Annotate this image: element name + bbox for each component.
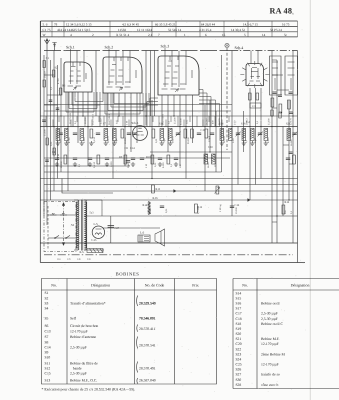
svg-text:Désignation: Désignation <box>91 284 110 288</box>
svg-text:Circuit de bouchon: Circuit de bouchon <box>70 324 98 328</box>
rail g2 line <box>44 110 231 112</box>
left table frame <box>42 279 217 385</box>
output transformer ticks <box>144 237 149 241</box>
svg-text:S11: S11 <box>45 361 51 365</box>
svg-text:Sch.4: Sch.4 <box>235 46 244 50</box>
scan speckle noise <box>42 17 306 391</box>
svg-text:C15: C15 <box>45 372 51 376</box>
svg-text:S15: S15 <box>236 296 242 300</box>
svg-text:25.000: 25.000 <box>44 129 47 136</box>
svg-text:C16: C16 <box>235 204 240 207</box>
mains dash vertical <box>47 206 49 250</box>
coil S14 winding <box>220 129 224 141</box>
svg-text:25pF: 25pF <box>254 137 257 143</box>
power transformer primary winding <box>77 200 79 250</box>
svg-text:C30: C30 <box>208 146 213 149</box>
schematic bottom border <box>40 262 305 264</box>
tube Sch.2 cathode arrow <box>119 87 123 90</box>
dial lamp cross <box>226 44 229 47</box>
trimmer C15 <box>176 133 180 135</box>
svg-text:56.561: 56.561 <box>290 139 293 146</box>
coil S2 winding <box>56 129 60 141</box>
svg-text:2,5-30 µµF: 2,5-30 µµF <box>70 345 87 349</box>
svg-text:C.25: C.25 <box>91 239 97 242</box>
right option box 1 marks <box>272 62 278 90</box>
resistor R8 <box>97 155 100 164</box>
svg-text:10.000: 10.000 <box>235 207 238 214</box>
resistor R11 <box>167 155 170 164</box>
left coupling box <box>53 70 55 77</box>
svg-text:S19: S19 <box>236 327 242 331</box>
svg-text:12 11 1634: 12 11 1634 <box>137 28 152 32</box>
magic eye coupling box C21 <box>250 103 261 108</box>
tube Sch.1 inner verticals <box>71 62 85 84</box>
svg-text:C20: C20 <box>236 342 242 346</box>
coupling loops under Sch.2 <box>105 93 149 114</box>
coil S16 winding <box>242 129 246 141</box>
svg-text:Bobine oscil: Bobine oscil <box>261 302 280 306</box>
left capacitor C3 <box>42 120 46 122</box>
svg-text:Sch.1: Sch.1 <box>66 45 75 49</box>
svg-text:25.000: 25.000 <box>174 117 177 124</box>
left tie 2 <box>47 94 61 96</box>
svg-text:1 M log: 1 M log <box>219 204 222 212</box>
svg-text:52 545 14: 52 545 14 <box>168 28 182 32</box>
svg-text:C17: C17 <box>236 312 242 316</box>
svg-text:S20: S20 <box>236 332 242 336</box>
transformer bottom leads <box>74 249 103 251</box>
rail HT line <box>40 199 297 201</box>
svg-text:66 35 5,8 45 21: 66 35 5,8 45 21 <box>155 22 176 26</box>
svg-text:10.000: 10.000 <box>60 161 63 168</box>
resistor R16 <box>271 98 274 107</box>
svg-text:125pF: 125pF <box>208 135 211 142</box>
svg-text:1.200: 1.200 <box>83 137 86 143</box>
svg-text:64 26,8 44: 64 26,8 44 <box>201 22 215 26</box>
left resistor Rb <box>53 148 55 155</box>
capacitor C25b <box>289 92 293 94</box>
svg-text:12-170 µµF: 12-170 µµF <box>261 363 279 367</box>
IF coupling loops left of Sch.3 <box>144 98 158 127</box>
capacitor C24 <box>278 95 282 97</box>
svg-text:cône avec b: cône avec b <box>261 383 279 387</box>
svg-text:S16: S16 <box>236 302 242 306</box>
antenna symbol <box>44 39 49 51</box>
svg-text:56.587: 56.587 <box>206 118 209 125</box>
volume potentiometer R13 <box>216 186 219 194</box>
rail long 3 <box>44 190 298 192</box>
resistor R7 <box>64 155 67 164</box>
tuning shaft dashed link <box>226 48 228 150</box>
svg-text:S10: S10 <box>45 356 51 360</box>
mains fuse 1 <box>50 213 57 215</box>
tube Sch.6 rectifier <box>92 226 104 238</box>
svg-text:S18: S18 <box>236 322 242 326</box>
svg-text:C13: C13 <box>45 329 51 333</box>
resistor R17 <box>279 104 282 113</box>
svg-text:S26: S26 <box>236 368 242 372</box>
rail AVC segment <box>44 165 130 167</box>
transformer top leads <box>74 200 102 216</box>
reservoir cap vertical <box>110 216 112 243</box>
power transformer primary inner <box>76 202 77 248</box>
svg-text:S3: S3 <box>45 301 49 305</box>
output transformer S27 box <box>138 235 150 242</box>
trimmer C20 <box>292 133 296 135</box>
svg-text:S21: S21 <box>236 337 242 341</box>
svg-text:Bobine du filtre de: Bobine du filtre de <box>70 361 98 365</box>
svg-text:15: 15 <box>222 33 226 37</box>
svg-text:S28: S28 <box>236 383 242 387</box>
svg-text:B.S.: B.S. <box>80 251 85 254</box>
svg-text:S22: S22 <box>236 347 242 351</box>
svg-text:S24: S24 <box>236 357 242 361</box>
rail cathode return <box>103 227 160 229</box>
svg-text:78.546.001: 78.546.001 <box>139 316 156 320</box>
voltage table frame <box>41 21 298 37</box>
svg-text:C1 75: C1 75 <box>43 28 51 32</box>
svg-text:S27: S27 <box>236 373 242 377</box>
connector arrows <box>174 190 250 202</box>
trimmer C18 <box>258 133 262 135</box>
left table brace marks <box>137 296 138 384</box>
bracket corner above transformer <box>62 179 113 194</box>
tube Sch.4 magic eye envelope <box>246 64 264 86</box>
svg-text:Désignation: Désignation <box>291 284 310 288</box>
svg-text:20pF: 20pF <box>127 162 130 168</box>
capacitor C22 <box>286 158 290 160</box>
stage Sch.1 tick <box>70 49 72 51</box>
tube Sch.2 envelope <box>103 57 142 93</box>
svg-text:5. 6: 5. 6 <box>43 22 48 26</box>
mains link arrow down <box>62 243 65 246</box>
magic eye bias components <box>249 93 252 100</box>
rail mid segment <box>150 151 232 153</box>
grid resistor R12 <box>195 204 198 213</box>
capacitor C8 <box>127 133 131 135</box>
svg-text:C19: C19 <box>201 129 206 132</box>
svg-text:60.000: 60.000 <box>180 118 183 125</box>
capacitor C23 <box>273 92 277 94</box>
rail mid long segment <box>44 157 230 159</box>
capacitor C12 <box>140 158 144 160</box>
mains line top <box>48 214 77 216</box>
tube Sch.3 cathode arrow <box>175 89 179 92</box>
svg-text:S30: S30 <box>236 378 242 382</box>
tube Sch.1 cathode arrow <box>73 87 76 90</box>
svg-text:28.570: 28.570 <box>218 118 221 125</box>
left capacitor C1a <box>49 100 53 102</box>
svg-text:Bobine M.F., O.C.: Bobine M.F., O.C. <box>70 379 97 383</box>
svg-text:bande: bande <box>70 366 82 370</box>
coil S20 winding <box>212 154 216 164</box>
svg-text:S13: S13 <box>45 379 51 383</box>
svg-text:S6: S6 <box>45 324 49 328</box>
page scan edge line <box>309 0 311 400</box>
capacitor C2 <box>73 133 77 135</box>
svg-text:S8: S8 <box>45 340 49 344</box>
capacitor C19 <box>197 133 201 135</box>
capacitor C9 <box>88 158 92 160</box>
tube Sch.1 electrodes <box>68 62 87 86</box>
svg-text:12 34 5,6 9,12 5 15: 12 34 5,6 9,12 5 15 <box>66 22 92 26</box>
left bias box <box>60 88 62 95</box>
svg-text:No.: No. <box>242 284 248 288</box>
coil S17 winding <box>251 129 255 141</box>
resistor R6 <box>205 129 208 138</box>
svg-text:* Exécution pour chassis de 25: * Exécution pour chassis de 25 c/s 28.53… <box>42 388 136 392</box>
antenna arrow head <box>46 39 48 41</box>
svg-text:X 51 51 4: X 51 51 4 <box>116 33 129 37</box>
resistor R20 <box>282 205 285 214</box>
left capacitor C3b <box>59 133 63 135</box>
speaker cone <box>155 229 165 246</box>
coupling loops under Sch.1 <box>66 92 103 112</box>
schematic right vertical wire <box>297 51 299 263</box>
coil S7 winding <box>104 129 108 141</box>
svg-text:S1: S1 <box>45 291 49 295</box>
schematic left border <box>39 21 41 263</box>
svg-text:S5: S5 <box>45 316 49 320</box>
tone capacitor C21b <box>126 161 130 163</box>
resistor R5 <box>191 129 194 138</box>
svg-text:12-170: 12-170 <box>290 117 293 125</box>
left capacitor C3c <box>45 160 49 162</box>
svg-text:Sch.3: Sch.3 <box>161 44 170 48</box>
coil S3 winding <box>65 129 69 141</box>
svg-text:R14: R14 <box>143 204 148 207</box>
mains dash-dot box <box>44 202 76 252</box>
svg-text:R.Dr: R.Dr <box>153 197 159 200</box>
coil S18 winding <box>264 129 268 141</box>
svg-text:RA 48: RA 48 <box>270 6 293 15</box>
junction dots <box>124 126 125 127</box>
svg-text:50pF: 50pF <box>115 137 118 143</box>
trimmer C14 <box>132 133 136 135</box>
svg-text:2.350: 2.350 <box>100 118 103 124</box>
right column capacitor Cc <box>289 112 293 114</box>
capacitor C13 <box>158 158 162 160</box>
svg-text:R16: R16 <box>285 201 290 204</box>
svg-text:50.000: 50.000 <box>84 117 87 124</box>
capacitor C11 <box>131 158 135 160</box>
voltage selector box <box>87 249 103 253</box>
mains switch contacts <box>54 237 56 239</box>
resistor R1 <box>90 129 93 138</box>
svg-text:90.000: 90.000 <box>187 137 190 144</box>
svg-text:Bobine oscil C: Bobine oscil C <box>261 322 283 326</box>
svg-text:S7: S7 <box>45 335 49 339</box>
svg-text:R10: R10 <box>146 156 151 159</box>
mains line bottom <box>48 237 77 239</box>
svg-text:Bobine M.F.: Bobine M.F. <box>261 337 280 341</box>
smoothing capacitor C27 <box>108 226 115 228</box>
svg-text:Prix: Prix <box>192 284 199 288</box>
svg-text:S4: S4 <box>45 307 49 311</box>
rail g1 line <box>44 104 232 106</box>
svg-text:S23: S23 <box>236 352 242 356</box>
resistor R18 <box>288 100 291 109</box>
stage Sch.3 tick <box>164 48 166 51</box>
svg-text:C25: C25 <box>236 363 242 367</box>
capacitor C10 <box>105 158 109 160</box>
svg-text:R15: R15 <box>156 188 161 191</box>
rectifier filament <box>95 229 102 235</box>
tube Sch.5 output tube <box>133 126 148 141</box>
capacitor C28 <box>289 152 293 154</box>
capacitor C29 <box>160 206 164 208</box>
svg-text:28.570: 28.570 <box>172 136 175 143</box>
svg-text:transfo de so: transfo de so <box>261 373 280 377</box>
resistor R4 <box>184 129 187 138</box>
svg-text:Self: Self <box>70 316 77 320</box>
trimmer C17 <box>236 133 240 135</box>
wave trap resistor <box>43 61 45 68</box>
svg-text:8.000: 8.000 <box>162 162 165 168</box>
svg-text:14: 14 <box>262 33 266 37</box>
mains link arrow up <box>62 203 65 206</box>
tube Sch.3 inner verticals <box>165 56 186 87</box>
svg-text:14,5 6,7 15: 14,5 6,7 15 <box>243 22 258 26</box>
tube Sch.3 electrodes <box>162 56 193 89</box>
tube Sch.2 inner verticals <box>109 57 130 85</box>
svg-text:Sch.5: Sch.5 <box>132 121 139 125</box>
tube Sch.2 electrodes <box>107 57 137 87</box>
coil S15 winding <box>229 129 233 141</box>
svg-text:25.000: 25.000 <box>268 118 271 125</box>
rail screen line <box>40 115 297 117</box>
ground junctions row 1 <box>56 141 60 145</box>
comb ticks between screen and anode rails <box>46 116 229 127</box>
right table frame <box>233 279 339 389</box>
resistor R14 zigzag <box>148 202 150 215</box>
svg-text:28.529.540: 28.529.540 <box>139 301 156 305</box>
rail anode bus <box>40 126 297 128</box>
junction dots rails extra <box>53 126 54 127</box>
capacitor C30 <box>210 133 214 135</box>
dial lamp <box>225 43 229 47</box>
rail heater line <box>84 215 298 217</box>
svg-text:S1: S1 <box>71 223 75 227</box>
voltage table column ticks <box>52 21 298 37</box>
capacitor C4 <box>55 158 59 160</box>
svg-text:Sch.2: Sch.2 <box>105 45 114 49</box>
left capacitor C1b <box>56 108 60 110</box>
svg-text:424 24 144625 54 1 5(15: 424 24 144625 54 1 5(15 <box>57 28 91 32</box>
svg-text:28.570.481: 28.570.481 <box>108 113 111 125</box>
svg-text:Bobine d’antenne: Bobine d’antenne <box>70 335 96 339</box>
tube Sch.3 envelope <box>158 56 199 95</box>
right option box 2 marks <box>288 62 295 90</box>
svg-text:S17: S17 <box>236 307 242 311</box>
svg-text:0,5 M: 0,5 M <box>93 161 96 168</box>
right column capacitor Ca <box>271 110 273 116</box>
svg-text:28.529: 28.529 <box>44 71 47 78</box>
svg-text:6.800: 6.800 <box>267 137 270 143</box>
svg-text:58.412: 58.412 <box>246 118 249 125</box>
svg-text:0,7 M: 0,7 M <box>197 207 200 214</box>
svg-text:75pF: 75pF <box>163 137 166 143</box>
svg-text:C27: C27 <box>115 227 120 230</box>
svg-text:C14: C14 <box>45 345 51 349</box>
resistor R19 <box>293 155 296 164</box>
svg-text:5.000: 5.000 <box>110 161 113 167</box>
schematic top rail dash-dot right <box>231 50 298 52</box>
svg-text:C18: C18 <box>236 317 242 321</box>
resistor R2 <box>121 129 124 138</box>
capacitor C6 <box>73 158 77 160</box>
svg-text:28.570.411: 28.570.411 <box>139 327 156 331</box>
left resistor Ra <box>46 138 48 145</box>
coil S4 winding <box>80 129 84 141</box>
svg-text:BOBINES: BOBINES <box>116 271 140 276</box>
rail long 2 <box>44 184 298 186</box>
svg-text:11582: 11582 <box>118 28 126 32</box>
svg-text:28.570.541: 28.570.541 <box>69 112 72 124</box>
svg-text:S2: S2 <box>45 296 49 300</box>
tube Sch.1 envelope <box>64 62 92 92</box>
wire verticals bundle <box>44 51 293 244</box>
svg-text:S14: S14 <box>236 291 242 295</box>
right column ties <box>272 60 293 222</box>
svg-text:4.700: 4.700 <box>68 137 71 143</box>
mains fuse 2 <box>60 213 67 215</box>
resistor R10 <box>151 155 154 164</box>
svg-text:L.6: L.6 <box>140 231 145 235</box>
svg-text:S9: S9 <box>45 351 49 355</box>
coil S21 winding <box>287 129 291 141</box>
svg-text:C14: C14 <box>130 147 135 150</box>
cathode resistor R15 <box>152 185 155 193</box>
coil S8 winding <box>113 129 117 141</box>
svg-text:4 31 25,4: 4 31 25,4 <box>199 28 212 32</box>
svg-text:52 P5 24: 52 P5 24 <box>270 28 282 32</box>
svg-text:28.570.491: 28.570.491 <box>139 366 156 370</box>
capacitor C16 <box>174 158 178 160</box>
right option box 2 <box>285 56 298 95</box>
chassis dash-dot line <box>44 254 293 256</box>
tube Sch.4 ray dashes <box>240 61 269 88</box>
svg-text:28.570.491: 28.570.491 <box>162 113 165 125</box>
grid cap leads <box>71 51 259 64</box>
ground junctions row 2 <box>55 162 59 166</box>
tube Sch.5 electrodes <box>136 128 144 135</box>
svg-text:12-170 µµF: 12-170 µµF <box>261 342 279 346</box>
IF coupling loops right of Sch.3 <box>199 90 220 127</box>
svg-text:28.570.541: 28.570.541 <box>139 343 156 347</box>
svg-text:2,5-30 µµF: 2,5-30 µµF <box>261 312 278 316</box>
svg-text:14 30,4 52: 14 30,4 52 <box>231 28 245 32</box>
svg-text:26.587.040: 26.587.040 <box>139 379 156 383</box>
schematic bottom rail <box>40 242 297 244</box>
mains link dash-dot arrows <box>63 204 65 244</box>
earth symbol <box>52 43 56 51</box>
svg-text:78: 78 <box>54 22 58 26</box>
svg-text:2,5-30 µµF: 2,5-30 µµF <box>70 372 87 376</box>
svg-text:4.700: 4.700 <box>57 78 60 84</box>
svg-text:5a3: 5a3 <box>90 212 95 215</box>
rail AVC long <box>44 171 222 173</box>
right column capacitor Cb <box>279 112 281 118</box>
left tie 1 <box>44 74 54 76</box>
right option box 1 <box>270 56 282 95</box>
stage Sch.4 tick <box>238 49 240 50</box>
svg-text:Transfo d’alimentation*: Transfo d’alimentation* <box>70 301 106 305</box>
svg-text:L.5: L.5 <box>94 222 99 226</box>
svg-text:No. de Code: No. de Code <box>145 284 165 288</box>
rail long 1 <box>40 178 297 180</box>
capacitor C5 <box>96 133 100 135</box>
